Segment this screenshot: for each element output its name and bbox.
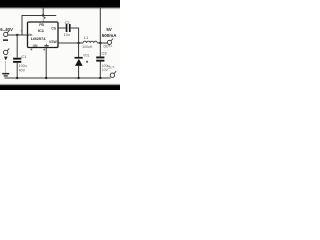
svg-text:VSW: VSW [49,40,58,44]
svg-text:C3: C3 [102,52,107,56]
input terminal X1 plus [4,30,10,36]
svg-text:L1: L1 [84,36,88,40]
top letterbox bar [0,0,120,10]
node C3 ground dot [99,77,101,79]
output terminal plus [107,39,113,45]
svg-text:C2: C2 [65,21,70,25]
svg-text:IC1: IC1 [38,28,45,33]
node feedback junction dot [42,14,44,16]
wire FB pin stub [42,16,44,23]
ground rail wire [5,77,111,79]
selection asterisk mark [86,61,88,63]
wire feedback branch left vertical and top horizontal [22,16,56,36]
svg-text:40V: 40V [19,69,26,73]
svg-text:Vin: Vin [27,33,32,37]
pin 2 mark under IC [44,49,46,51]
node C1 ground dot [16,77,18,79]
background [0,0,120,90]
dash mark under input terminal [3,39,8,41]
wire input to Vin pin [8,34,28,36]
wire inductor to output node [97,42,107,44]
pin 3 mark under IC [31,49,33,51]
wire Cb pin to C2 [58,27,66,29]
capacitor C2 plates [66,24,71,32]
node switch junction dot [77,42,79,44]
wire minus terminal down [5,61,7,73]
svg-text:VD1: VD1 [83,54,89,58]
svg-text:ON: ON [33,44,38,48]
svg-text:LM2574: LM2574 [31,36,46,41]
svg-text:100uH: 100uH [82,45,93,49]
node IC ground dot [45,77,47,79]
svg-text:OUT-: OUT- [108,66,116,70]
capacitor C3 output electrolytic [96,43,104,78]
internal ground symbol in IC [44,44,48,48]
svg-text:500mA: 500mA [102,33,118,38]
ground symbol left [2,73,9,77]
svg-text:Cb: Cb [51,27,56,31]
wire GND pin to rail [45,48,47,78]
svg-text:FB: FB [39,23,44,27]
svg-text:5V: 5V [106,27,111,32]
svg-text:100u: 100u [19,64,27,68]
wire output riser into top bar [99,7,101,43]
capacitor C1 input electrolytic [13,35,21,78]
svg-text:10n: 10n [64,33,70,37]
output terminal minus [110,71,116,77]
wire C2 to switch node [71,28,79,43]
node input junction dot [16,34,18,36]
svg-text:6..40V: 6..40V [0,27,13,32]
bottom letterbox bar [0,83,120,90]
wire feedback riser into top bar [42,7,44,16]
svg-text:OUT+: OUT+ [103,45,112,49]
wire VSW pin to inductor [58,42,83,44]
input terminal X2 minus [3,48,9,60]
inductor L1 coil [83,41,97,43]
pin number 1 mark [44,17,45,19]
svg-text:C1: C1 [21,55,26,59]
op-amp IC1 LM2574 body [28,22,59,48]
diode VD1 [75,43,83,78]
node VD1 ground dot [77,77,79,79]
node output junction dot [99,42,101,44]
